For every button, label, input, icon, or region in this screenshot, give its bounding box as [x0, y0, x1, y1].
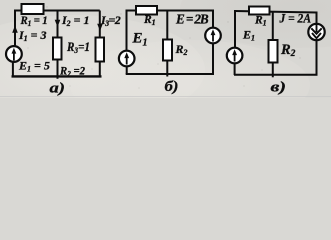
- wire middle branch v: [272, 12, 274, 41]
- source E=2V (b) inner arrow: [211, 29, 216, 41]
- wire middle branch b: [166, 11, 168, 41]
- svg-text:I1 = 3: I1 = 3: [18, 28, 47, 43]
- current source J (v) circle with double chevron: [308, 24, 324, 40]
- svg-text:I3=2: I3=2: [100, 13, 121, 28]
- resistor R1 (a): [22, 4, 44, 14]
- wire left b: [126, 10, 128, 52]
- resistor R2 (b): [163, 40, 172, 61]
- wire bottom v: [234, 74, 318, 76]
- svg-text:J = 2A: J = 2A: [279, 10, 312, 25]
- svg-text:а): а): [50, 81, 66, 97]
- svg-text:E = 2В: E = 2В: [175, 13, 208, 28]
- svg-text:R3=1: R3=1: [66, 39, 90, 55]
- source E1 (v) inner arrow: [232, 49, 237, 61]
- current arrow I2 (down, on middle branch): [55, 20, 61, 27]
- current source J (v) double-chevron arrow: [311, 25, 321, 39]
- svg-text:E1 = 5: E1 = 5: [18, 59, 50, 74]
- wire top a: [15, 10, 100, 12]
- wire top v: [235, 11, 317, 13]
- wire left v: [234, 10, 236, 48]
- current arrow I1 (up, on left wire): [12, 26, 18, 33]
- wire right v: [316, 12, 318, 25]
- wire right b: [212, 10, 214, 29]
- svg-text:I2 = 1: I2 = 1: [61, 13, 90, 28]
- faint page artifact line at bottom: [0, 96, 331, 98]
- wire middle branch a: [57, 11, 59, 39]
- resistor R2 (v): [269, 40, 278, 63]
- svg-text:R1 = 1: R1 = 1: [20, 15, 48, 28]
- source E1 (v) circle: [227, 48, 243, 64]
- source E1 (a) inner arrow: [12, 48, 17, 61]
- resistor R2 (a, middle branch): [53, 38, 62, 60]
- source E1 (a) circle: [6, 46, 22, 62]
- wire right branch a: [99, 11, 101, 39]
- wire top b: [127, 10, 214, 12]
- wire left a: [14, 10, 16, 47]
- scan noise specks: [27, 6, 300, 88]
- resistor R1 (b): [136, 6, 157, 15]
- svg-text:R2 =2: R2 =2: [59, 64, 85, 79]
- svg-text:б): б): [165, 79, 179, 95]
- wire left-bottom a: [12, 62, 14, 78]
- wire bottom a: [12, 75, 102, 77]
- resistor R1 (v): [249, 7, 270, 15]
- wire bottom b: [126, 73, 214, 75]
- source E1 (b) circle: [119, 51, 135, 67]
- svg-text:в): в): [271, 79, 287, 95]
- source E1 (b) inner arrow: [124, 52, 129, 64]
- resistor R3 (a, right branch): [96, 38, 105, 62]
- current arrow I3 (down, on right branch): [97, 24, 103, 31]
- source E=2V (b) circle: [205, 28, 221, 44]
